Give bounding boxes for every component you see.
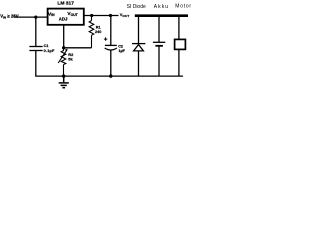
- wire C2 top lead: [110, 16, 112, 46]
- svg-text:1µF: 1µF: [119, 49, 126, 53]
- resistor R1: [89, 16, 94, 48]
- motor M1 box: [175, 39, 186, 49]
- svg-text:0.1µF: 0.1µF: [44, 49, 55, 53]
- wire VOUT: [84, 15, 119, 17]
- svg-text:240: 240: [95, 30, 101, 34]
- svg-text:R1: R1: [96, 26, 101, 30]
- svg-text:ADJ: ADJ: [59, 16, 68, 21]
- svg-text:C1: C1: [44, 44, 49, 48]
- svg-text:SI Diode: SI Diode: [127, 4, 146, 10]
- wire motor top lead: [178, 16, 180, 40]
- capacitor C2: [105, 45, 117, 50]
- wire ground rail: [35, 75, 183, 77]
- capacitor C1: [29, 47, 42, 51]
- wire C1 bottom lead: [35, 51, 37, 77]
- svg-text:VOUT: VOUT: [120, 12, 130, 18]
- diode D1: [132, 44, 145, 51]
- node R1 top junction: [90, 14, 93, 17]
- wire C1 top lead: [35, 17, 37, 46]
- wire diode top lead: [138, 16, 140, 43]
- wire battery top lead: [158, 16, 160, 42]
- node ground junction: [62, 74, 65, 77]
- wire top-right rail: [135, 14, 188, 17]
- node C2 bottom junction: [109, 74, 112, 77]
- svg-text:VIN ≥ 28V: VIN ≥ 28V: [0, 14, 19, 20]
- node C2 top junction: [109, 14, 112, 17]
- node C1 tap junction: [34, 16, 37, 19]
- resistor R2 potentiometer: [58, 48, 67, 76]
- wire battery bottom lead: [158, 46, 160, 76]
- svg-text:LM 317: LM 317: [57, 1, 74, 7]
- wire diode bottom lead: [138, 51, 140, 76]
- wire motor bottom lead: [178, 50, 180, 77]
- ground: [59, 76, 69, 88]
- wire C2 bottom lead: [110, 50, 112, 76]
- wire ADJ pin: [63, 25, 65, 48]
- battery B1: [153, 42, 165, 46]
- node ADJ junction: [62, 46, 65, 49]
- wire input: [14, 16, 47, 18]
- svg-text:VIN: VIN: [48, 11, 55, 17]
- wire ADJ to R1 bottom: [63, 47, 92, 49]
- svg-text:Motor: Motor: [175, 4, 192, 10]
- svg-text:Akku: Akku: [154, 4, 169, 10]
- svg-text:VOUT: VOUT: [67, 11, 78, 17]
- svg-text:C2: C2: [118, 44, 123, 48]
